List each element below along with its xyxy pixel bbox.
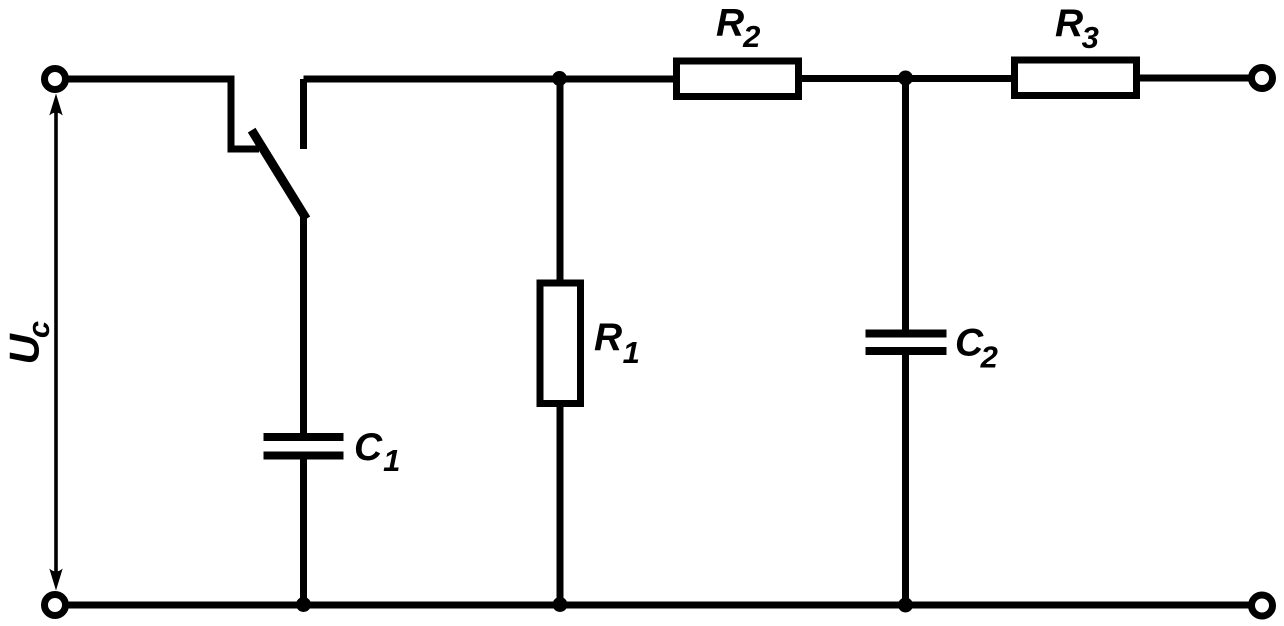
resistor R3 <box>1015 60 1137 96</box>
arrowhead top <box>49 94 62 116</box>
capacitor C1 bottom plate <box>264 452 344 460</box>
wire C1 to bottom rail <box>300 460 307 606</box>
node junction bottom C1 <box>296 597 311 612</box>
wire top rail switch to R2 <box>304 76 677 83</box>
capacitor C2 top plate <box>866 330 947 338</box>
terminal bottom-right <box>1252 595 1273 616</box>
wire R2 to R3 <box>802 75 1012 82</box>
voltage arrow Uc line <box>54 110 58 573</box>
capacitor C2 bottom plate <box>866 347 947 355</box>
terminal top-left <box>45 69 66 90</box>
wire R3 to top-right terminal <box>1140 75 1252 82</box>
node junction bottom R1 <box>553 597 568 612</box>
wire C2 top lead <box>902 78 909 330</box>
terminal bottom-left <box>45 595 66 616</box>
node junction top R1 <box>552 71 567 86</box>
wire top-left terminal to switch <box>66 79 259 149</box>
wire switch to C1 <box>300 212 307 434</box>
switch blade S <box>254 134 304 215</box>
switch right contact stub <box>300 79 307 149</box>
node junction bottom C2 <box>898 598 913 613</box>
wire C2 to bottom rail <box>902 355 909 605</box>
bottom rail wire <box>66 602 1252 609</box>
resistor R1 <box>540 283 581 404</box>
wire R1 top lead <box>557 79 564 283</box>
node junction top C2 <box>898 71 913 86</box>
arrowhead bottom <box>49 569 62 591</box>
capacitor C1 top plate <box>264 433 344 441</box>
wire R1 bottom lead <box>557 403 564 605</box>
terminal top-right <box>1252 68 1273 89</box>
resistor R2 <box>677 61 799 97</box>
